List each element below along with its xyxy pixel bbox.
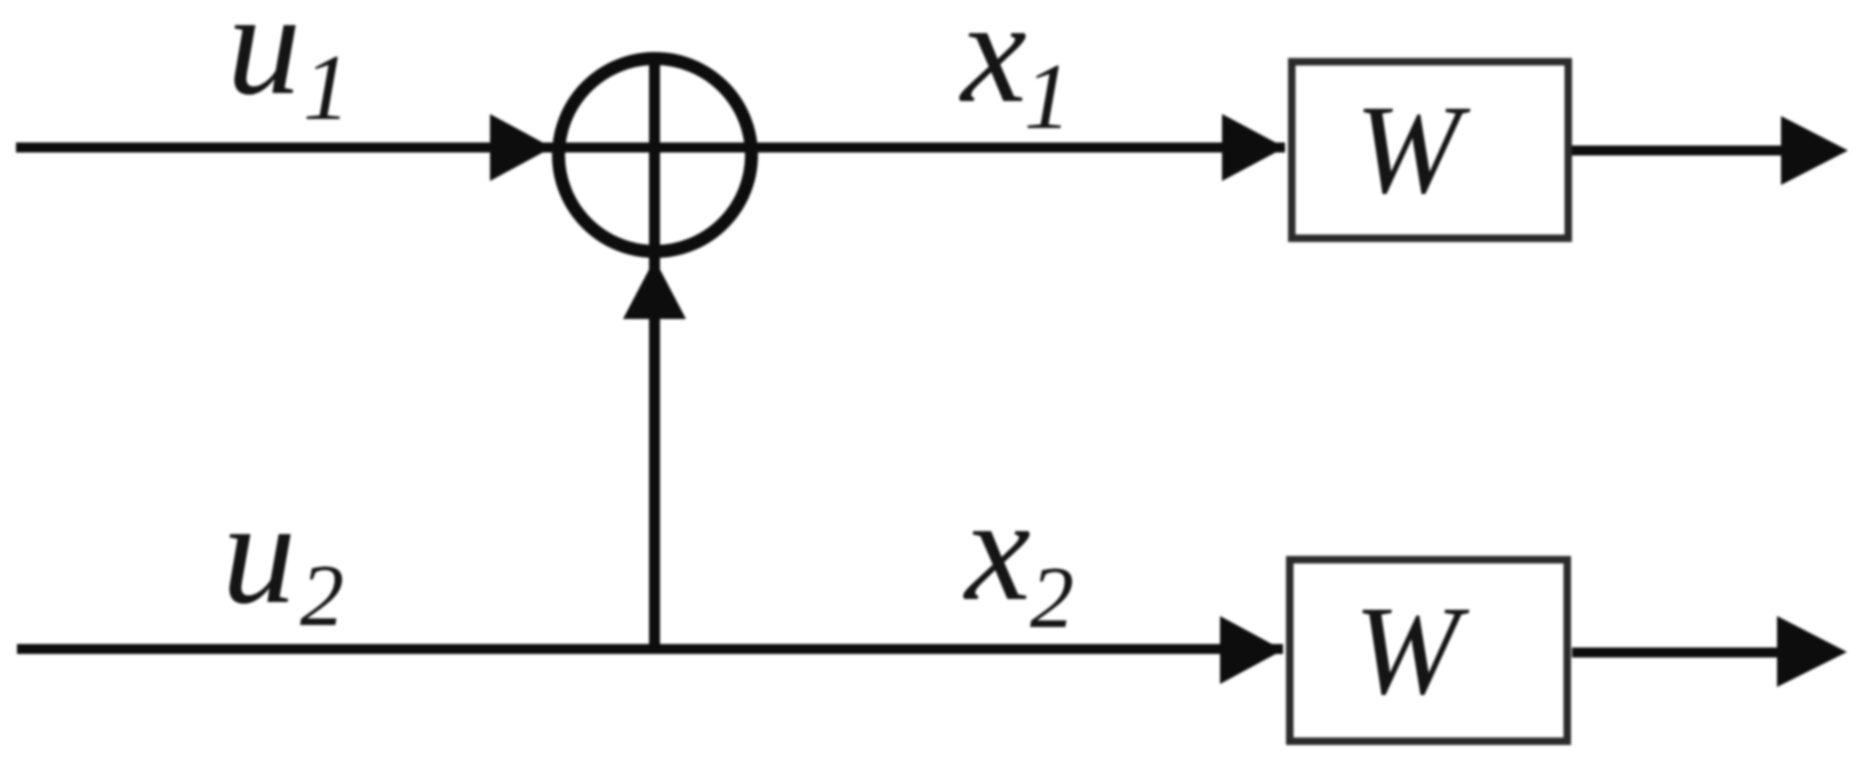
arrowhead y2 output [1777,616,1847,687]
arrowhead into XOR node [490,114,552,181]
svg-text:1: 1 [303,36,350,140]
XOR adder node (circle with plus) [559,59,752,252]
svg-text:u: u [222,471,296,635]
arrowhead into top W box [1222,114,1285,181]
svg-text:2: 2 [300,548,344,645]
svg-text:x: x [959,0,1027,134]
arrowhead y1 output [1781,116,1848,185]
svg-text:2: 2 [1030,550,1074,647]
svg-text:W: W [1355,80,1471,220]
wire vertical branch from u2 line up to XOR [649,54,660,649]
arrowhead up into XOR node [623,259,686,319]
svg-text:W: W [1354,581,1470,721]
svg-text:u: u [227,0,301,126]
wire y2 output [1572,648,1786,658]
wire u1 input (top line into XOR and through to W) [16,143,1285,153]
channel block W (top) [1292,62,1569,239]
wire y1 output [1572,146,1790,156]
arrowhead into bottom W box [1220,616,1283,684]
wire u2 input (bottom line) [17,644,1283,654]
svg-text:x: x [963,468,1031,632]
channel block W (bottom) [1290,560,1568,742]
svg-text:1: 1 [1024,45,1071,149]
